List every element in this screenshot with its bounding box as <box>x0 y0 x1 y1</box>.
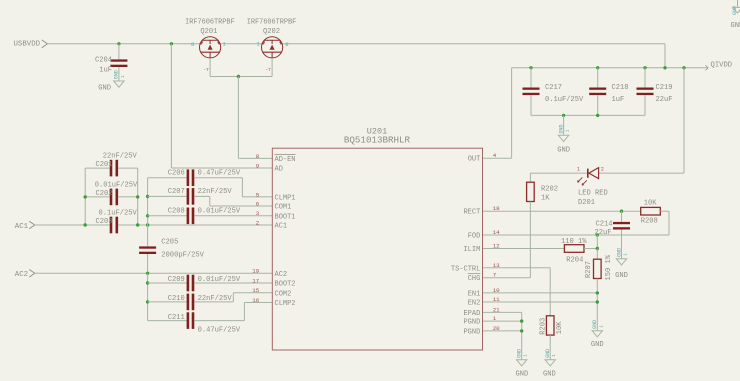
svg-text:1: 1 <box>599 325 604 328</box>
wire gate tie <box>210 76 272 78</box>
svg-text:RECT: RECT <box>463 209 480 217</box>
wire C206 row right <box>194 177 242 179</box>
svg-text:1: 1 <box>566 129 571 132</box>
svg-text:10K: 10K <box>644 199 658 207</box>
svg-text:13: 13 <box>493 262 500 269</box>
svg-text:0.47uF/25V: 0.47uF/25V <box>198 170 241 178</box>
svg-text:CLMP2: CLMP2 <box>275 300 296 308</box>
wire C211 rise to CLMP2 <box>243 303 245 321</box>
svg-text:8: 8 <box>285 41 288 48</box>
svg-text:1: 1 <box>524 354 529 357</box>
node junction EN1 <box>596 291 599 294</box>
svg-text:EN2: EN2 <box>468 300 481 308</box>
svg-text:C218: C218 <box>612 84 629 92</box>
wire R202 top lead <box>529 173 531 182</box>
wire OUT pin 4 <box>483 157 512 159</box>
wire LED anode <box>599 172 684 174</box>
svg-text:1uF: 1uF <box>612 96 625 104</box>
svg-text:CHG: CHG <box>468 275 481 283</box>
svg-text:GND: GND <box>114 70 120 79</box>
svg-text:2000pF/25V: 2000pF/25V <box>161 251 204 259</box>
wire C201 row left <box>85 167 110 169</box>
wire USBVDD rail to Q201 <box>47 43 199 45</box>
wire R202 bottom lead to CHG <box>529 202 531 278</box>
svg-text:6: 6 <box>256 200 260 207</box>
wire C219 bottom lead <box>644 95 646 115</box>
resistor R203 <box>546 316 554 335</box>
svg-text:110 1%: 110 1% <box>561 238 587 246</box>
svg-text:AC1: AC1 <box>275 223 288 231</box>
node junction RECT C214 <box>620 210 623 213</box>
wire LED riser from QIVDD <box>683 68 685 173</box>
svg-text:1: 1 <box>121 75 126 78</box>
wire C204 top lead <box>118 44 120 60</box>
svg-text:21: 21 <box>493 306 500 313</box>
svg-text:4: 4 <box>493 152 497 159</box>
svg-text:AC2: AC2 <box>15 271 28 279</box>
capacitor C206 <box>187 169 190 186</box>
svg-text:C207: C207 <box>168 188 185 196</box>
svg-text:GND: GND <box>543 370 556 378</box>
svg-text:R202: R202 <box>541 185 558 193</box>
wire PGND pin 20 <box>483 330 522 332</box>
wire AD riser <box>170 44 172 168</box>
node junction gate tie <box>237 75 240 78</box>
wire EPAD pin 21 <box>483 311 522 313</box>
svg-text:GND: GND <box>591 341 604 349</box>
wire C217 bottom lead <box>530 95 532 115</box>
node junction FOD tie <box>596 233 599 236</box>
node junction PGND20 <box>520 329 523 332</box>
svg-text:-7: -7 <box>265 67 271 73</box>
wire C210 row left <box>148 301 187 303</box>
svg-text:R204: R204 <box>566 257 583 265</box>
svg-text:GND: GND <box>557 146 570 154</box>
svg-text:2: 2 <box>256 219 260 226</box>
node junction AC2 rail <box>146 272 149 275</box>
svg-text:C210: C210 <box>168 295 185 303</box>
svg-text:1K: 1K <box>541 195 550 203</box>
wire C203 row left <box>85 224 110 226</box>
svg-text:0.1uF/25V: 0.1uF/25V <box>545 96 584 104</box>
node junction C209 left <box>146 281 149 284</box>
svg-text:AC2: AC2 <box>275 271 288 279</box>
resistor R204 <box>564 245 584 253</box>
wire FOD pin 14 <box>483 234 670 236</box>
svg-text:GND: GND <box>545 349 551 358</box>
wire CLMP1 pin 5 <box>242 196 272 198</box>
svg-text:FOD: FOD <box>468 233 481 241</box>
capacitor C214 <box>613 222 630 224</box>
svg-text:OUT: OUT <box>468 156 481 164</box>
wire COM2 pin 15 <box>233 292 272 294</box>
node junction C204 tap <box>117 42 120 45</box>
ground top-right (cropped) <box>737 0 739 7</box>
wire TS-CTRL pin 13 <box>483 267 551 269</box>
wire QIVDD rail <box>512 67 708 69</box>
svg-text:C202: C202 <box>95 190 112 198</box>
svg-text:12: 12 <box>493 243 500 250</box>
wire C203 row right to AC1 pin <box>118 224 272 226</box>
wire C208 row left <box>148 215 187 217</box>
svg-text:1: 1 <box>577 167 580 173</box>
svg-text:0.47uF/25V: 0.47uF/25V <box>198 327 241 335</box>
wire Q201 to Q202 <box>221 43 262 45</box>
svg-text:9: 9 <box>256 162 260 169</box>
wire LED cathode to R202 <box>530 172 587 174</box>
wire EN2 pin 11 <box>483 301 598 303</box>
svg-text:14: 14 <box>493 229 500 236</box>
wire C214 bottom lead <box>621 230 623 259</box>
wire ILIM pin 12 <box>483 248 565 250</box>
capacitor C209 <box>187 275 190 292</box>
wire C209 row right to BOOT2 pin 17 <box>194 282 272 284</box>
svg-text:GND: GND <box>516 370 529 378</box>
svg-text:GND: GND <box>98 85 111 93</box>
svg-text:IRF7606TRPBF: IRF7606TRPBF <box>185 18 235 26</box>
svg-text:IRF7606TRPBF: IRF7606TRPBF <box>247 18 297 26</box>
svg-text:11: 11 <box>493 296 500 303</box>
capacitor C204 <box>110 59 127 61</box>
wire C211 row left <box>148 320 187 322</box>
wire C201 bank right rail <box>137 168 139 225</box>
svg-text:1uF: 1uF <box>99 66 112 74</box>
svg-text:LED RED: LED RED <box>578 190 608 198</box>
node junction AD riser tap <box>170 42 173 45</box>
svg-text:C219: C219 <box>656 84 673 92</box>
svg-text:C214: C214 <box>595 220 612 228</box>
wire C202 row right <box>118 196 138 198</box>
wire C208 row right to BOOT1 pin 3 <box>194 215 272 217</box>
node junction QIVDD C218 <box>596 66 599 69</box>
svg-text:-7: -7 <box>203 67 209 73</box>
svg-text:C211: C211 <box>168 314 185 322</box>
svg-text:BOOT1: BOOT1 <box>275 213 296 221</box>
capacitor C219 <box>637 88 654 90</box>
net label QIVDD <box>705 65 708 70</box>
svg-text:2: 2 <box>601 166 604 172</box>
svg-text:D201: D201 <box>578 199 595 207</box>
wire CLMP2 pin 16 <box>244 302 272 304</box>
wire R208 right lead <box>660 210 669 212</box>
svg-text:GND: GND <box>592 320 598 329</box>
wire C214 top lead <box>621 211 623 222</box>
wire C202 row left <box>85 196 110 198</box>
svg-text:10K: 10K <box>556 321 564 335</box>
svg-text:USBVDD: USBVDD <box>14 41 41 49</box>
svg-text:10: 10 <box>493 287 500 294</box>
node junction bank GND tap <box>562 114 565 117</box>
wire C205 top lead <box>147 225 149 246</box>
svg-text:C205: C205 <box>161 239 178 247</box>
svg-text:8: 8 <box>191 41 194 48</box>
resistor R208 <box>641 207 661 215</box>
capacitor C203 <box>110 217 113 234</box>
wire R204 right lead <box>584 248 597 250</box>
wire EN1 pin 10 <box>483 292 598 294</box>
svg-text:COM2: COM2 <box>275 290 292 298</box>
node junction C208 left <box>146 214 149 217</box>
wire TS-CTRL drop <box>549 268 551 316</box>
svg-text:C204: C204 <box>95 56 112 64</box>
svg-text:AD: AD <box>275 166 283 174</box>
wire C209 row left <box>148 282 187 284</box>
capacitor C207 <box>187 188 190 205</box>
wire AC2 line to pin 19 <box>35 272 272 274</box>
wire OUT riser <box>511 68 513 158</box>
wire C210 rise to COM2 <box>232 293 234 302</box>
resistor R202 <box>527 182 535 201</box>
svg-text:GND: GND <box>731 22 740 30</box>
wire RECT pin 18 <box>483 210 641 212</box>
capacitor C205 <box>139 246 156 248</box>
wire R203 bottom lead <box>549 335 551 360</box>
wire Q202 gate lead <box>271 58 273 77</box>
wire R207 top lead <box>596 249 598 260</box>
wire Q201 gate lead <box>209 58 211 77</box>
svg-text:20: 20 <box>493 325 500 332</box>
wire cap bank bottom rail <box>531 114 645 116</box>
svg-text:R207: R207 <box>585 261 593 278</box>
wire C206 drop to CLMP1 <box>241 178 243 197</box>
node junction C210 left <box>146 300 149 303</box>
wire C204 bottom lead <box>118 67 120 81</box>
svg-text:C208: C208 <box>168 208 185 216</box>
svg-text:7: 7 <box>493 272 497 279</box>
svg-text:AC1: AC1 <box>15 223 29 231</box>
svg-text:0.01uF/25V: 0.01uF/25V <box>198 208 241 216</box>
svg-text:18: 18 <box>493 205 500 212</box>
node junction C207 left <box>146 195 149 198</box>
wire C217 top lead <box>530 68 532 88</box>
wire C207 drop to COM1 <box>209 196 211 206</box>
svg-text:22nF/25V: 22nF/25V <box>198 188 233 196</box>
wire AD-EN riser <box>237 77 239 159</box>
svg-text:1: 1 <box>257 42 260 48</box>
svg-text:C209: C209 <box>168 276 185 284</box>
capacitor C211 <box>187 312 190 329</box>
wire C210 row right <box>194 301 233 303</box>
svg-text:BQ51013BRHLR: BQ51013BRHLR <box>344 135 411 146</box>
node junction AC1 C205 rail <box>146 223 149 226</box>
svg-text:GND: GND <box>615 272 628 280</box>
node junction QIVDD C217 <box>529 66 532 69</box>
svg-text:C206: C206 <box>168 170 185 178</box>
node junction AC1 right rail <box>136 223 139 226</box>
svg-text:1: 1 <box>223 42 226 48</box>
svg-text:5: 5 <box>256 191 260 198</box>
wire C207 row left <box>148 195 187 197</box>
svg-text:19: 19 <box>252 268 259 275</box>
svg-text:C201: C201 <box>95 161 112 169</box>
capacitor C210 <box>187 294 190 311</box>
svg-text:1: 1 <box>493 315 497 322</box>
wire C205 bottom lead <box>147 254 149 273</box>
svg-text:EPAD: EPAD <box>463 310 480 318</box>
wire AD-EN to pin 8 <box>238 157 272 159</box>
wire C206 row left <box>148 177 187 179</box>
node junction C202 right <box>136 195 139 198</box>
svg-text:16: 16 <box>252 297 259 304</box>
resistor R207 <box>594 259 602 278</box>
svg-text:GND: GND <box>517 349 523 358</box>
node junction C202 left <box>84 195 87 198</box>
svg-text:22nF/25V: 22nF/25V <box>103 153 138 161</box>
svg-text:ILIM: ILIM <box>463 246 480 254</box>
capacitor C217 <box>523 88 540 90</box>
node junction QIVDD C219 <box>643 66 646 69</box>
svg-text:22uF: 22uF <box>656 96 673 104</box>
svg-text:C217: C217 <box>545 84 562 92</box>
node junction QIVDD rail-in <box>663 66 666 69</box>
wire C201 row right <box>118 167 138 169</box>
wire low bank rail <box>147 273 149 320</box>
wire C219 top lead <box>644 68 646 88</box>
svg-text:1: 1 <box>624 253 629 256</box>
svg-text:1: 1 <box>552 354 557 357</box>
wire C218 bottom lead <box>597 95 599 115</box>
wire mid bank rail upper <box>147 178 149 225</box>
wire Q202 to top-right corner <box>283 43 665 45</box>
capacitor C201 <box>110 160 113 177</box>
wire FOD-ILIM tie <box>596 235 598 249</box>
wire EPAD drop <box>521 312 523 359</box>
svg-text:8: 8 <box>256 153 260 160</box>
svg-text:BOOT2: BOOT2 <box>275 281 296 289</box>
op-amp U201 BQ51013BRHLR body <box>272 148 482 350</box>
svg-text:PGND: PGND <box>463 328 480 336</box>
wire R208 drop to FOD <box>668 211 670 235</box>
wire top-right corner drop to QIVDD rail <box>664 44 666 68</box>
wire C211 row right <box>194 320 244 322</box>
wire C207 row right <box>194 195 210 197</box>
svg-text:COM1: COM1 <box>275 204 292 212</box>
svg-text:0.01uF/25V: 0.01uF/25V <box>95 181 138 189</box>
wire AD to pin 9 <box>171 167 272 169</box>
svg-text:Q201: Q201 <box>200 28 217 36</box>
node junction ILIM tie <box>596 247 599 250</box>
node junction QIVDD LED riser <box>682 66 685 69</box>
node junction EN2 <box>596 300 599 303</box>
svg-text:Q202: Q202 <box>263 28 280 36</box>
svg-text:GND: GND <box>616 248 622 257</box>
node junction PGND1 <box>520 319 523 322</box>
wire PGND pin 1 <box>483 320 522 322</box>
svg-text:150 1%: 150 1% <box>605 254 613 280</box>
capacitor C202 <box>110 189 113 206</box>
svg-text:R208: R208 <box>641 218 658 226</box>
svg-text:C203: C203 <box>95 218 112 226</box>
svg-text:QIVDD: QIVDD <box>711 61 733 69</box>
wire AC1 label to bank <box>35 224 85 226</box>
svg-text:15: 15 <box>252 287 259 294</box>
svg-text:0.1uF/25V: 0.1uF/25V <box>98 210 137 218</box>
wire C218 top lead <box>597 68 599 88</box>
led D201 <box>587 169 589 178</box>
wire CHG pin 7 <box>483 277 531 279</box>
svg-text:GND: GND <box>558 124 564 133</box>
svg-text:3: 3 <box>256 210 260 217</box>
svg-text:AD-EN: AD-EN <box>275 156 296 164</box>
capacitor C218 <box>589 88 606 90</box>
svg-text:EN1: EN1 <box>468 290 481 298</box>
wire C201 bank left rail <box>84 168 86 225</box>
node junction bank C218 tap <box>596 114 599 117</box>
svg-text:R203: R203 <box>539 318 547 335</box>
wire bank GND stem <box>563 115 565 135</box>
capacitor C208 <box>187 208 190 225</box>
wire R207 bottom lead <box>596 279 598 331</box>
svg-text:17: 17 <box>252 277 259 284</box>
svg-text:TS-CTRL: TS-CTRL <box>451 265 480 273</box>
svg-text:CLMP1: CLMP1 <box>275 194 296 202</box>
wire COM1 pin 6 <box>210 205 272 207</box>
node junction AC1 left rail <box>84 223 87 226</box>
svg-text:PGND: PGND <box>463 319 480 327</box>
